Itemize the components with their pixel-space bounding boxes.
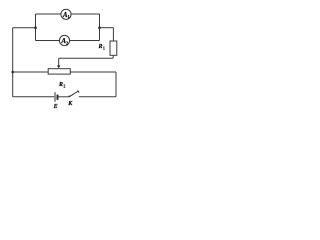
battery E short thick plate xyxy=(57,95,59,100)
svg-text:2: 2 xyxy=(66,40,68,45)
wire top branch right xyxy=(71,13,99,15)
wire battery to switch xyxy=(59,96,69,98)
ammeter A1 circle xyxy=(61,9,71,19)
wire A2 branch right xyxy=(70,40,100,42)
wire right vertical joining branches xyxy=(99,14,101,41)
svg-text:1: 1 xyxy=(68,14,70,19)
switch K blade tip tick xyxy=(78,90,80,92)
wire down to R1 top xyxy=(112,28,114,41)
switch K pivot dot xyxy=(68,96,70,98)
wire switch to right rail xyxy=(79,96,116,98)
wire rheostat left terminal to left rail xyxy=(13,71,49,73)
svg-text:R: R xyxy=(98,44,103,50)
svg-text:R: R xyxy=(58,82,63,88)
wire left vertical joining branches xyxy=(35,14,37,41)
wire from node A to left rail xyxy=(13,27,36,29)
ammeter A2 circle xyxy=(59,35,69,45)
wire A2 branch left xyxy=(36,40,60,42)
rheostat R2 wiper stem xyxy=(58,58,60,65)
wire node B jog to R1 xyxy=(100,27,114,29)
svg-text:K: K xyxy=(67,101,73,107)
svg-text:2: 2 xyxy=(64,85,66,89)
svg-text:E: E xyxy=(53,104,58,110)
wire R1 to wiper arrow xyxy=(59,57,113,59)
battery E long plate xyxy=(54,92,56,102)
resistor R1 body xyxy=(110,41,117,55)
wire right rail vertical xyxy=(115,72,117,97)
node A junction dot xyxy=(34,26,37,29)
node C junction dot (left rail / rheostat) xyxy=(11,71,14,74)
wire right rail to rheostat xyxy=(70,71,116,73)
rheostat R2 wiper arrowhead xyxy=(57,65,60,68)
wire bottom left to battery xyxy=(13,96,55,98)
wire left rail vertical xyxy=(12,28,14,97)
wire R1 bottom xyxy=(112,55,114,58)
wire top branch left xyxy=(36,13,62,15)
rheostat R2 body xyxy=(48,69,70,74)
svg-text:1: 1 xyxy=(103,46,105,50)
switch K blade xyxy=(70,91,79,96)
node B junction dot xyxy=(98,26,101,29)
